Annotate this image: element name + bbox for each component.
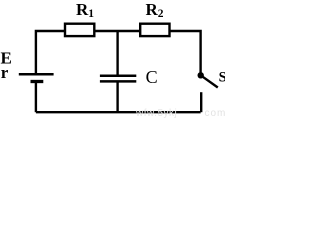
svg-text:R1: R1: [76, 0, 94, 20]
switch S blade: [203, 77, 218, 88]
svg-text:C: C: [146, 67, 158, 87]
svg-text:R2: R2: [146, 0, 164, 20]
svg-text:r: r: [1, 63, 9, 82]
wire: bottom wire from left corner to right corner: [36, 111, 201, 113]
battery E,r long plate: [19, 73, 54, 76]
resistor R2: [140, 24, 169, 36]
wire: switch lower terminal down to bottom-right corner: [200, 92, 202, 112]
wire: battery top to top-left corner to R1 left lead: [36, 31, 65, 74]
resistor R1: [65, 24, 94, 36]
wire: R1 right lead to R2 left lead (through node at middle branch): [95, 30, 141, 32]
svg-text:com: com: [205, 108, 226, 118]
switch S pivot dot: [198, 72, 204, 78]
svg-text:wfw.5ykj: wfw.5ykj: [135, 108, 177, 118]
wire: capacitor bottom plate down to bottom wire: [116, 82, 118, 113]
wire: middle branch from top wire down to capacitor top plate: [116, 31, 118, 76]
capacitor C bottom plate: [100, 80, 136, 83]
capacitor C top plate: [100, 74, 136, 77]
wire: battery bottom plate down to bottom-left corner: [35, 82, 37, 112]
wire: R2 right lead to top-right corner down to switch dot: [170, 31, 201, 73]
svg-text:S: S: [219, 70, 225, 86]
battery E,r short plate: [31, 80, 44, 83]
